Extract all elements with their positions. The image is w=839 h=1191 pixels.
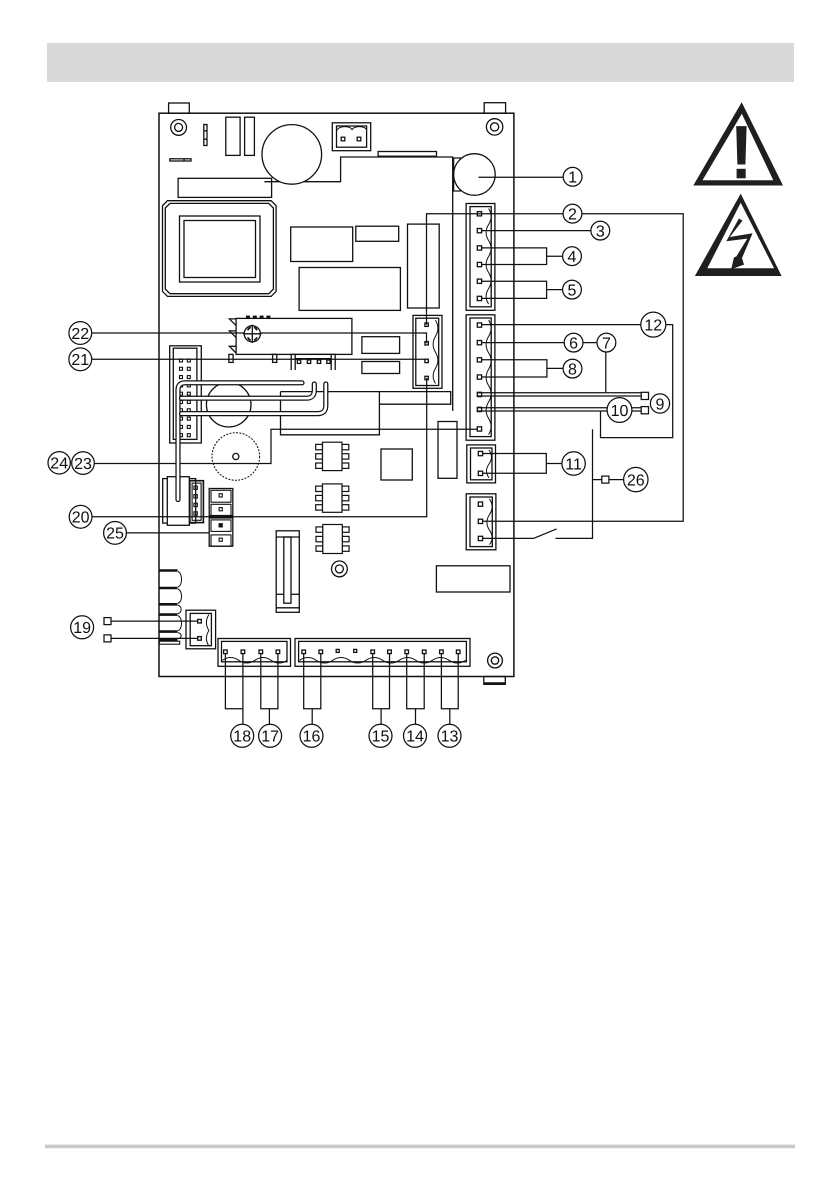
- relay RL1 feet: [229, 354, 233, 362]
- svg-text:11: 11: [565, 456, 582, 473]
- PCB region boundary upper: [264, 157, 452, 411]
- footer gray rule: [45, 1145, 795, 1149]
- pipe wire B: [182, 384, 315, 398]
- svg-text:2: 2: [568, 207, 577, 224]
- PCB board outline: [159, 113, 514, 676]
- wire callout 5 bracket: [481, 281, 562, 298]
- IC U3: [356, 226, 399, 241]
- resistor network R2: [362, 362, 400, 374]
- connector J8 bottom 10-pin: [295, 639, 470, 667]
- capacitor C1: [226, 117, 240, 155]
- wire callout 17: [261, 654, 278, 725]
- callout 3: [591, 221, 610, 240]
- IC U9 dip: [316, 484, 349, 512]
- callout 26: [624, 467, 648, 491]
- callout 24: [48, 452, 70, 474]
- PCB top-right tab: [484, 103, 505, 114]
- callout 15: [369, 724, 392, 747]
- IC U8 dip: [316, 442, 349, 470]
- callout 18: [231, 724, 254, 747]
- region rect R: [281, 392, 380, 435]
- split jumper bar: [170, 159, 191, 161]
- jumper block channel: [276, 531, 299, 613]
- wire callout 15: [373, 654, 390, 725]
- display connector J12: [436, 566, 510, 592]
- PCB bottom tab: [484, 677, 506, 685]
- callout 22: [69, 322, 92, 345]
- pipe wire A with vertical leg: [178, 383, 302, 500]
- warning triangle lightning: [695, 194, 782, 276]
- callout 19: [71, 616, 94, 639]
- wire callout 4 bracket: [481, 248, 562, 265]
- capacitor C2: [245, 117, 255, 155]
- pipe wire C: [182, 384, 326, 414]
- wire callout 16: [304, 654, 321, 725]
- svg-text:19: 19: [73, 620, 91, 637]
- IC U10 dip: [316, 525, 349, 554]
- wire callout 23-24: [94, 429, 477, 463]
- wire callout 13: [441, 654, 458, 725]
- callout 23: [72, 452, 95, 475]
- IC U2: [291, 227, 353, 262]
- connector J9 4-pin middle: [413, 315, 442, 388]
- trimmer RV1: [243, 325, 261, 343]
- wire relay switch net: [482, 429, 602, 538]
- svg-text:21: 21: [71, 352, 89, 369]
- large circle top-left (capacitor): [262, 125, 322, 185]
- region band H1/H2: [281, 392, 451, 405]
- connector J4 stack of 4: [209, 489, 233, 547]
- callout 12: [641, 312, 666, 337]
- callout 14: [404, 724, 427, 747]
- callout 5: [563, 280, 582, 299]
- svg-text:26: 26: [627, 472, 645, 489]
- svg-text:25: 25: [106, 526, 124, 543]
- wire callout 19 squares: [104, 618, 111, 625]
- svg-text:12: 12: [644, 317, 662, 334]
- svg-text:5: 5: [568, 282, 577, 299]
- washer hole mid-board: [332, 561, 348, 577]
- wire callout 22: [92, 333, 427, 343]
- callout 8: [563, 359, 582, 378]
- terminal square 26: [602, 476, 609, 483]
- buzzer BZ1 flat-side circle: [454, 154, 496, 196]
- header gray bar: [47, 43, 794, 82]
- connector X5 3-pin right: [466, 494, 496, 550]
- switch blade: [534, 529, 557, 539]
- transformer T1 core window: [180, 216, 261, 282]
- svg-text:1: 1: [568, 170, 577, 187]
- wire callout 12 net: [481, 325, 673, 438]
- svg-text:23: 23: [74, 456, 92, 473]
- crystal Y1: [204, 125, 207, 146]
- callout 4: [563, 247, 582, 266]
- mounting hole bottom-right: [488, 653, 503, 668]
- svg-text:24: 24: [50, 456, 68, 473]
- relay RL1 left notches: [229, 319, 236, 353]
- callout 9: [650, 394, 669, 413]
- header J2 dual-row: [170, 346, 202, 443]
- svg-text:16: 16: [303, 729, 321, 746]
- rect above transformer: [178, 178, 272, 197]
- mounting hole top-right: [486, 119, 502, 135]
- svg-text:9: 9: [656, 396, 665, 413]
- callout 6: [564, 333, 583, 352]
- svg-text:6: 6: [569, 335, 578, 352]
- wire callout 8 bracket: [481, 360, 563, 377]
- IC U7 square: [381, 449, 412, 480]
- wire pin5 double: [478, 393, 642, 396]
- svg-text:15: 15: [372, 729, 390, 746]
- PCB top-left tab: [169, 103, 190, 113]
- connector X1 2-pin top: [332, 123, 370, 151]
- callout 17: [259, 724, 282, 747]
- callout 13: [438, 724, 461, 747]
- callout 2: [563, 204, 582, 223]
- svg-text:20: 20: [72, 510, 90, 527]
- wire callout 18: [225, 654, 243, 725]
- wire callout 11 bracket: [482, 454, 562, 474]
- transformer T1 outer: [163, 201, 277, 297]
- svg-text:22: 22: [71, 326, 89, 343]
- svg-text:10: 10: [611, 403, 629, 420]
- svg-text:14: 14: [406, 729, 424, 746]
- inductor L1 coil: [159, 571, 177, 640]
- callout 7: [597, 333, 616, 352]
- heatsink bar: [378, 152, 436, 157]
- connector X4 2-pin right: [467, 445, 496, 483]
- connector J7 bottom 4-pin: [218, 639, 291, 667]
- svg-text:13: 13: [441, 729, 459, 746]
- wire callout 3: [481, 230, 591, 232]
- IC U6: [438, 422, 457, 479]
- svg-text:7: 7: [602, 335, 611, 352]
- wire pin6 double: [478, 408, 642, 411]
- wire callout 20: [92, 378, 427, 517]
- wire callout 14: [407, 654, 425, 725]
- wire callout 1: [479, 176, 564, 178]
- callout 21: [69, 348, 92, 371]
- callout 25: [104, 522, 127, 545]
- IC U4: [299, 268, 400, 311]
- relay RL1 body: [236, 318, 352, 354]
- connector J6 2-pin left (19): [186, 610, 216, 649]
- capacitor C3 circle upper: [206, 382, 251, 427]
- callout 16: [300, 724, 323, 747]
- warning triangle exclamation: [693, 102, 783, 185]
- callout 11: [562, 452, 585, 475]
- callout 20: [69, 505, 92, 528]
- wire callouts 6-7: [481, 343, 606, 393]
- svg-text:8: 8: [568, 361, 577, 378]
- connector X2 6-pin right: [466, 204, 495, 311]
- inductor L1 base: [159, 641, 179, 644]
- jumper pipes group: [178, 383, 326, 500]
- resistor network R1: [362, 337, 400, 354]
- relay RL1 top ticks: [246, 316, 270, 319]
- callout 1: [563, 167, 582, 186]
- terminal square 9b: [641, 407, 648, 414]
- wire callout 2 net: [427, 214, 684, 522]
- wire callout 21: [92, 358, 426, 360]
- IC U5 tall: [408, 224, 440, 308]
- connector J3 left assembly: [163, 479, 196, 523]
- connector X3 7-pin right: [466, 315, 495, 440]
- svg-text:4: 4: [568, 249, 577, 266]
- svg-text:3: 3: [596, 223, 605, 240]
- callout 10: [607, 398, 632, 423]
- buzzer BZ2 dashed circle: [212, 433, 260, 481]
- wire callout 25: [126, 532, 209, 534]
- svg-text:17: 17: [261, 729, 279, 746]
- terminal square 9a: [641, 392, 648, 399]
- mounting hole top-left: [171, 120, 187, 136]
- header J5 below relay: [291, 354, 335, 370]
- svg-text:18: 18: [233, 729, 251, 746]
